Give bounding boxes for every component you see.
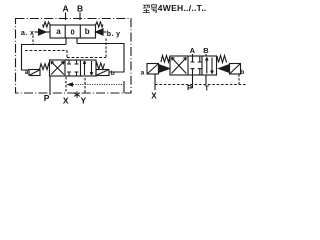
drain dashed horizontal lower (67, 57, 106, 59)
port B stub (205, 54, 207, 56)
title glyph 号 (vector) (151, 5, 157, 13)
svg-text:X: X (63, 95, 69, 105)
svg-text:4WEH../..T..: 4WEH../..T.. (158, 3, 207, 13)
port A stub (192, 54, 194, 56)
svg-text:B: B (77, 4, 83, 14)
port B line (79, 13, 81, 21)
port P line (right valve) (190, 75, 193, 88)
main valve right pilot cap (96, 70, 109, 76)
svg-text:b: b (85, 27, 90, 36)
pilot triangle left (159, 65, 170, 73)
svg-text:a: a (25, 69, 29, 76)
spring left (right valve) (161, 56, 170, 63)
main valve left spring (40, 64, 50, 70)
pilot port stub right (76, 38, 78, 44)
pilot y drain dashed (105, 39, 107, 58)
spring right (right valve) (217, 56, 227, 63)
svg-text:T: T (205, 86, 210, 93)
pilot valve body (boxes a 0 b) (50, 25, 96, 38)
port X line (right valve) (154, 74, 156, 90)
title glyph 型 (vector) (143, 5, 150, 13)
svg-text:b. y: b. y (107, 31, 121, 38)
pilot triangle right (219, 65, 230, 73)
port X dashed (65, 77, 67, 93)
pilot port stub left (65, 38, 67, 45)
solenoid box right (230, 64, 241, 75)
svg-text:X: X (151, 91, 157, 100)
svg-text:a: a (56, 27, 61, 36)
pilot B to right cap line (77, 44, 124, 73)
port A line (65, 13, 67, 21)
drain dashed elbow (66, 51, 68, 58)
right box2 blocked ports (191, 56, 202, 62)
svg-text:A: A (190, 46, 196, 55)
main box3 parallel arrows (83, 61, 85, 75)
svg-text:0: 0 (71, 27, 75, 36)
svg-text:Y: Y (81, 96, 87, 106)
main box1 crossed arrows (51, 62, 64, 75)
pilot x supply dashed (32, 36, 34, 45)
pilot A to left cap line (22, 45, 67, 71)
right valve body (170, 56, 217, 75)
drain dashed horizontal upper (25, 50, 67, 52)
pilot valve left spring (43, 22, 50, 27)
right box1 crossed arrows (172, 58, 187, 74)
main valve left pilot cap (29, 70, 40, 76)
svg-text:b: b (240, 69, 244, 76)
svg-text:a. x: a. x (21, 30, 34, 37)
drain drop from right solenoid (238, 75, 240, 85)
main box2 blocked ports (67, 60, 79, 64)
port Y dashed (84, 78, 86, 93)
pilot valve left solenoid a (39, 29, 47, 35)
right box3 parallel arrows (206, 58, 208, 74)
pilot valve right solenoid b (96, 29, 104, 35)
svg-text:B: B (203, 46, 209, 55)
pilot valve right spring (96, 22, 103, 27)
label * (74, 91, 80, 98)
svg-text:b: b (111, 70, 115, 77)
main valve P line (49, 76, 51, 95)
pilot drain dashed (right valve) (155, 84, 247, 86)
port T line (right valve) (205, 75, 207, 85)
solenoid box left (147, 64, 159, 75)
main valve body (50, 60, 97, 76)
reference line end tick (123, 81, 125, 93)
svg-text:P: P (44, 93, 50, 103)
assembly boundary (chain line) (16, 19, 132, 94)
svg-text:A: A (63, 4, 69, 14)
dotted reference arrow to Y (71, 84, 125, 86)
svg-text:a: a (141, 70, 145, 77)
main valve right spring (96, 63, 105, 69)
